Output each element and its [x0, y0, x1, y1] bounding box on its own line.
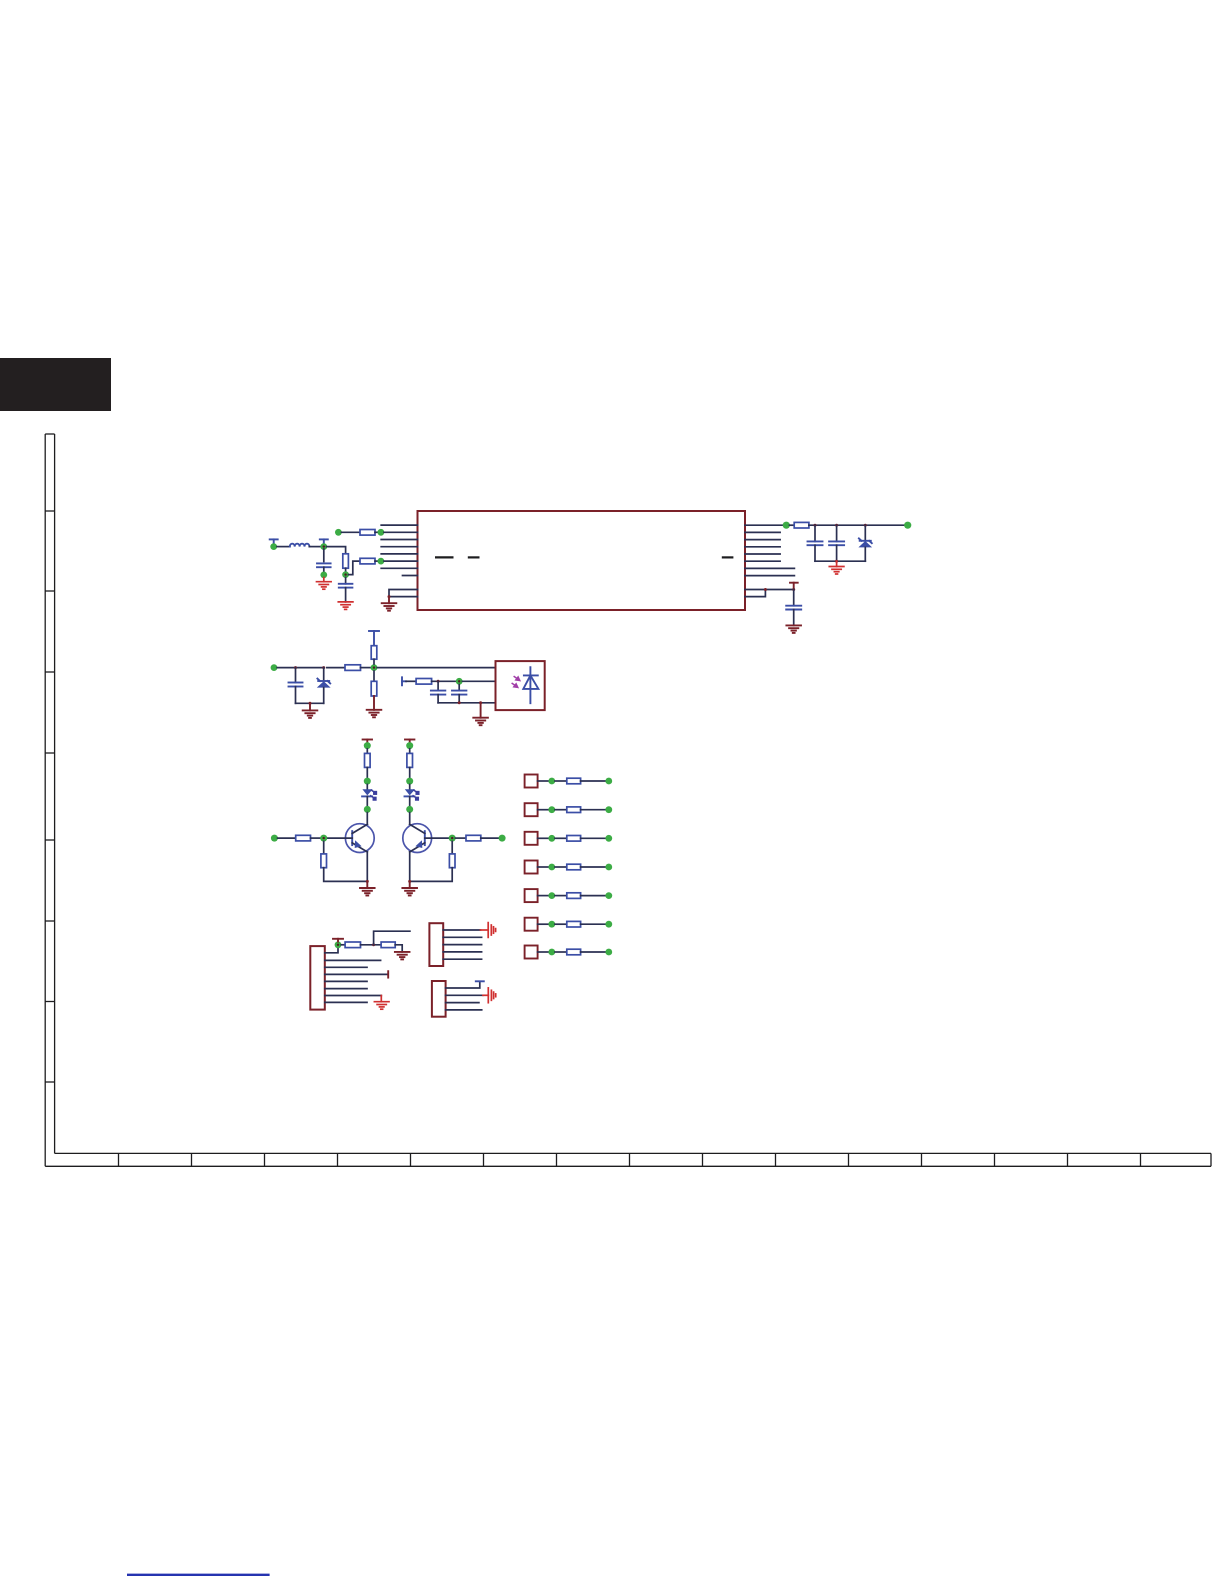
node dot	[335, 941, 342, 948]
junction node	[456, 678, 463, 685]
inductor L1	[290, 544, 310, 547]
wire	[345, 578, 347, 584]
capacitor C8	[452, 691, 466, 695]
U1 right pin 3	[745, 539, 780, 541]
wire	[380, 996, 382, 1002]
ground GND7	[367, 710, 382, 718]
zener D1	[858, 525, 872, 561]
wire	[295, 687, 297, 704]
U1 left pin 1	[381, 524, 417, 526]
CN1 pin 8 wire	[325, 1001, 367, 1003]
wire	[814, 525, 816, 541]
wire pin 2	[384, 531, 418, 533]
capacitor C4	[829, 541, 844, 545]
zener D2	[317, 668, 331, 704]
terminal T	[369, 631, 379, 646]
resistor R4	[794, 522, 809, 528]
wire	[462, 680, 495, 682]
connector CN3 body	[432, 981, 446, 1017]
terminal T	[402, 677, 406, 685]
wire	[323, 549, 325, 562]
resistor R9	[365, 753, 371, 767]
junction	[479, 701, 482, 704]
junction	[366, 880, 369, 883]
terminal T	[476, 980, 484, 982]
ground GND14	[488, 988, 495, 1003]
wire	[277, 667, 324, 669]
terminal T	[320, 539, 328, 544]
node dot	[378, 529, 385, 536]
IC U1 body	[418, 511, 746, 610]
wire	[836, 525, 838, 541]
wire	[814, 545, 816, 561]
sheet border bottom row	[45, 1153, 1211, 1166]
U1 left pin 9 wire	[389, 590, 418, 597]
CN1 pin 2 wire	[325, 959, 381, 961]
wire	[793, 610, 795, 626]
wire	[375, 531, 378, 533]
terminal T	[405, 740, 414, 743]
ground GND2	[338, 602, 353, 610]
terminal T	[790, 583, 798, 590]
CN2 pin 1 wire	[443, 929, 480, 931]
LED D4	[362, 784, 376, 806]
wire	[324, 868, 368, 882]
node dot	[499, 835, 506, 842]
wire	[395, 945, 402, 952]
CN2 pin 3 wire	[443, 944, 481, 946]
wire	[327, 547, 346, 554]
U1 left pin 5	[381, 553, 417, 555]
wire	[458, 695, 460, 703]
wire bottom rail	[438, 702, 495, 704]
wire	[361, 667, 372, 669]
junction	[458, 701, 461, 704]
terminal T	[387, 971, 389, 977]
ground GND8	[480, 703, 482, 718]
ground GND12	[374, 1002, 389, 1010]
wire	[410, 868, 453, 882]
junction	[309, 702, 312, 705]
port P4	[525, 861, 613, 874]
node dot	[904, 522, 911, 529]
CN1 pin 3 wire	[325, 966, 367, 968]
capacitor C7	[431, 691, 445, 695]
resistor R16	[381, 942, 395, 948]
U1 right pin 1 wire	[745, 524, 783, 526]
junction	[792, 588, 795, 591]
capacitor C6	[289, 683, 303, 687]
wire	[458, 685, 460, 691]
port P6	[525, 918, 613, 931]
wire	[455, 837, 466, 839]
CN3 pin 3 wire	[446, 1002, 479, 1004]
wire	[375, 560, 378, 562]
U1 right pin 2	[745, 531, 780, 533]
transistor Q1	[345, 824, 374, 853]
black header bar	[0, 358, 111, 411]
ground GND11	[395, 952, 410, 960]
wire	[373, 696, 375, 710]
U1 left pin 10 wire	[389, 596, 418, 598]
junction	[322, 666, 325, 669]
wire	[345, 588, 347, 602]
wire pin 6	[384, 560, 418, 562]
junction	[388, 595, 391, 598]
capacitor C2	[339, 584, 353, 588]
port P1	[525, 775, 613, 788]
transistor Q2	[403, 824, 432, 853]
wire	[481, 929, 489, 931]
port P2	[525, 803, 613, 816]
resistor R6	[371, 646, 377, 660]
wire	[406, 680, 416, 682]
node dot	[406, 778, 413, 785]
wire VCC rail	[809, 524, 905, 526]
port P3	[525, 832, 613, 845]
U1 left pin 3	[381, 539, 417, 541]
CN1 pin 6 wire	[325, 988, 367, 990]
junction	[408, 880, 411, 883]
wire	[409, 813, 411, 825]
footer link line	[127, 1574, 270, 1576]
CN2 pin 4 wire	[443, 951, 481, 953]
U1 left pin 7	[381, 567, 417, 569]
capacitor C3	[808, 541, 823, 545]
U1 left pin 8	[403, 575, 418, 577]
node dot	[335, 529, 342, 536]
U1 right pin 10 wire	[745, 590, 765, 597]
wire	[311, 837, 321, 839]
terminal T	[363, 740, 372, 743]
junction	[864, 524, 867, 527]
node dot	[406, 806, 413, 813]
node dot	[783, 522, 790, 529]
wire base	[327, 837, 352, 839]
port P5	[525, 889, 613, 902]
wire bottom rail	[296, 702, 324, 704]
ground GND6	[309, 703, 311, 710]
resistor R1	[360, 530, 375, 536]
wire	[409, 749, 411, 754]
connector CN1 body	[310, 946, 325, 1010]
node dot	[364, 806, 371, 813]
wire	[327, 667, 345, 669]
U1 right pin 4	[745, 546, 780, 548]
ground GND13	[488, 923, 495, 938]
wire	[323, 841, 325, 854]
capacitor C1	[317, 563, 331, 567]
wire	[342, 531, 361, 533]
LED D5	[405, 784, 419, 806]
wire	[481, 837, 499, 839]
junction node	[371, 664, 378, 671]
CN3 pin 1 wire	[446, 982, 480, 988]
wire	[366, 767, 368, 778]
U1 inner dash 2	[468, 556, 480, 558]
wire	[432, 680, 456, 682]
wire	[361, 944, 382, 946]
junction	[764, 588, 767, 591]
U1 inner dash 1	[435, 556, 454, 558]
CN3 pin 2 wire	[446, 994, 483, 996]
wire	[437, 695, 439, 703]
U1 right pin 6	[745, 560, 780, 562]
wire	[278, 837, 296, 839]
CN2 pin 5 wire	[443, 958, 481, 960]
wire	[366, 813, 368, 825]
resistor R3	[360, 558, 375, 564]
CN3 pin 4 wire	[446, 1009, 482, 1011]
wire	[323, 567, 325, 572]
resistor R13	[466, 835, 481, 841]
node dot	[364, 778, 371, 785]
junction	[835, 524, 838, 527]
wire	[409, 767, 411, 778]
wire to opto	[377, 667, 495, 669]
resistor R15	[345, 942, 360, 948]
U1 right pin 8	[745, 575, 794, 577]
node dot	[378, 558, 385, 565]
CN1 pin 7 wire	[325, 995, 382, 997]
junction node	[449, 835, 456, 842]
wire	[483, 994, 488, 996]
CN1 pin 5 wire	[325, 980, 367, 982]
U1 right pin 7	[745, 567, 794, 569]
wire emitter	[409, 852, 411, 882]
resistor R10	[296, 835, 311, 841]
junction	[294, 666, 297, 669]
wire stub	[374, 931, 410, 945]
wire bottom rail	[815, 560, 865, 562]
wire	[373, 659, 375, 664]
wire	[437, 681, 439, 690]
junction	[835, 560, 838, 563]
wire	[790, 524, 795, 526]
junction node	[342, 571, 349, 578]
junction	[437, 680, 440, 683]
sheet border left column	[45, 434, 54, 1166]
node dot	[271, 835, 278, 842]
wire	[295, 668, 297, 683]
wire	[366, 749, 368, 754]
node dot	[406, 742, 413, 749]
junction	[372, 943, 375, 946]
ground GND3	[388, 597, 390, 604]
ground GND5	[836, 561, 838, 566]
wire	[451, 841, 453, 854]
wire	[349, 561, 361, 575]
resistor R8	[416, 679, 432, 685]
ground GND1	[323, 578, 325, 582]
wire	[341, 944, 345, 946]
optocoupler U2 body	[496, 661, 545, 710]
wire	[373, 671, 375, 681]
ground GND9	[366, 881, 368, 888]
U1 right pin 9 wire	[745, 589, 794, 591]
resistor R12	[407, 753, 413, 767]
wire	[836, 545, 838, 561]
junction node	[320, 835, 327, 842]
CN1 pin 4 wire	[325, 973, 388, 975]
node VIN dot	[270, 543, 277, 550]
port P7	[525, 946, 613, 959]
node dot	[364, 742, 371, 749]
CN1 pin 1 wire	[325, 948, 338, 953]
photodiode D3	[523, 667, 538, 703]
terminal T	[333, 939, 343, 942]
resistor R11	[321, 854, 327, 868]
capacitor C5	[786, 606, 801, 610]
light arrows	[512, 676, 520, 687]
connector CN2 body	[429, 923, 443, 966]
junction node	[320, 543, 327, 550]
ground GND4	[786, 625, 801, 633]
U1 right pin 5	[745, 553, 780, 555]
resistor R2	[343, 554, 349, 568]
resistor R7	[371, 681, 377, 696]
CN2 pin 2 wire	[443, 936, 481, 938]
wire emitter	[366, 852, 368, 882]
U1 left pin 4	[381, 546, 417, 548]
wire base	[425, 837, 449, 839]
resistor R5	[345, 665, 361, 671]
resistor R14	[449, 854, 455, 868]
wire	[345, 568, 347, 572]
node dot	[320, 572, 327, 579]
wire	[277, 546, 290, 548]
ground GND10	[409, 881, 411, 888]
port terminal T	[270, 539, 278, 544]
junction	[814, 524, 817, 527]
wire	[793, 590, 795, 606]
node dot	[271, 664, 278, 671]
wire	[309, 546, 320, 548]
U1 inner dash 3	[722, 556, 734, 558]
